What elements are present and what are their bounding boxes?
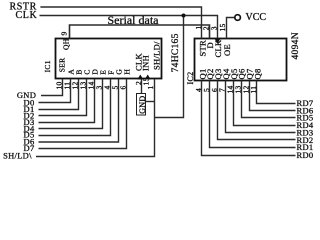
svg-text:INH: INH [141, 55, 151, 71]
svg-text:SER: SER [58, 58, 67, 73]
svg-text:11: 11 [249, 86, 258, 94]
svg-text:OE: OE [222, 44, 232, 56]
svg-text:6: 6 [119, 85, 128, 89]
svg-text:1: 1 [146, 85, 155, 89]
svg-text:15: 15 [218, 23, 227, 31]
svg-text:15: 15 [141, 77, 150, 85]
svg-text:Q8: Q8 [253, 69, 263, 80]
svg-text:IC1: IC1 [43, 60, 52, 72]
svg-text:SH/LD\: SH/LD\ [3, 151, 32, 161]
svg-text:9: 9 [60, 31, 69, 35]
svg-text:RD0: RD0 [297, 150, 314, 160]
svg-text:74HC165: 74HC165 [171, 33, 181, 72]
svg-text:4094N: 4094N [291, 32, 301, 59]
svg-text:H: H [122, 69, 131, 75]
svg-text:CLK: CLK [16, 10, 38, 21]
svg-text:SH/LD/: SH/LD/ [152, 41, 162, 70]
svg-text:IC2: IC2 [186, 72, 195, 85]
svg-text:VCC: VCC [246, 12, 267, 23]
svg-text:QH: QH [62, 38, 71, 50]
svg-text:GND: GND [138, 96, 147, 114]
svg-text:Serial data: Serial data [108, 13, 160, 27]
